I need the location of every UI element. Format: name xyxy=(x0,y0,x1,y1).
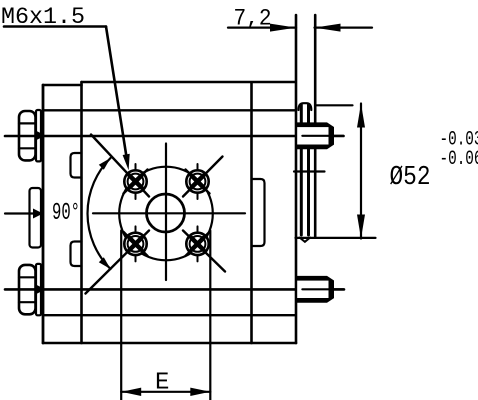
svg-text:90°: 90° xyxy=(52,200,80,227)
svg-text:M6x1.5: M6x1.5 xyxy=(1,4,85,30)
svg-text:7,2: 7,2 xyxy=(234,5,272,31)
svg-text:-0.06: -0.06 xyxy=(440,148,478,171)
svg-text:Ø52: Ø52 xyxy=(390,163,431,193)
svg-text:E: E xyxy=(155,370,169,397)
